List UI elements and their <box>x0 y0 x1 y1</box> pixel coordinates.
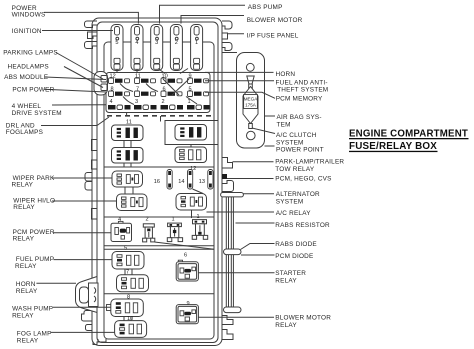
svg-text:ABS MODULE: ABS MODULE <box>4 74 48 81</box>
svg-text:FUEL AND ANTI-: FUEL AND ANTI- <box>276 79 328 86</box>
svg-text:HORN: HORN <box>16 281 36 288</box>
svg-text:ENGINE COMPARTMENT: ENGINE COMPARTMENT <box>349 128 468 139</box>
svg-text:9: 9 <box>189 74 192 80</box>
svg-text:THEFT SYSTEM: THEFT SYSTEM <box>277 87 328 94</box>
svg-text:DRIVE SYSTEM: DRIVE SYSTEM <box>12 110 62 117</box>
svg-text:PCM DIODE: PCM DIODE <box>275 253 313 260</box>
svg-text:WASH PUMP: WASH PUMP <box>12 305 53 312</box>
svg-text:RELAY: RELAY <box>12 181 34 188</box>
svg-text:1: 1 <box>172 217 175 223</box>
svg-text:RELAY: RELAY <box>12 312 34 319</box>
svg-text:1: 1 <box>188 99 191 105</box>
svg-text:AIR BAG SYS-: AIR BAG SYS- <box>277 114 322 121</box>
svg-text:3: 3 <box>155 40 158 46</box>
svg-text:6: 6 <box>163 86 166 92</box>
svg-text:HEADLAMPS: HEADLAMPS <box>8 63 49 70</box>
svg-text:16: 16 <box>154 179 160 185</box>
svg-text:4: 4 <box>110 99 113 105</box>
svg-text:A/C CLUTCH: A/C CLUTCH <box>276 132 317 139</box>
svg-text:7: 7 <box>136 86 139 92</box>
svg-text:PCM, HEGO, CVS: PCM, HEGO, CVS <box>275 176 331 183</box>
svg-text:1: 1 <box>195 40 198 46</box>
svg-text:RABS DIODE: RABS DIODE <box>275 241 317 248</box>
svg-text:STARTER: STARTER <box>275 270 306 277</box>
svg-text:MEGA: MEGA <box>244 97 258 102</box>
svg-text:TOW RELAY: TOW RELAY <box>275 166 315 173</box>
svg-text:6: 6 <box>184 252 187 258</box>
svg-text:10: 10 <box>162 74 168 80</box>
svg-text:5: 5 <box>124 245 127 251</box>
svg-text:PARK-LAMP/TRAILER: PARK-LAMP/TRAILER <box>275 159 344 166</box>
svg-text:IGNITION: IGNITION <box>12 28 42 35</box>
svg-text:ABS PUMP: ABS PUMP <box>248 4 283 11</box>
svg-text:PCM POWER: PCM POWER <box>12 87 54 94</box>
svg-text:2: 2 <box>162 99 165 105</box>
svg-text:ALTERNATOR: ALTERNATOR <box>276 191 320 198</box>
svg-text:RELAY: RELAY <box>13 204 35 211</box>
svg-text:5: 5 <box>189 86 192 92</box>
svg-text:RELAY: RELAY <box>275 322 297 329</box>
svg-text:4: 4 <box>135 40 138 46</box>
svg-text:13: 13 <box>199 179 205 185</box>
svg-text:14: 14 <box>178 179 184 185</box>
svg-text:PCM MEMORY: PCM MEMORY <box>276 95 323 102</box>
svg-text:TEM: TEM <box>277 121 291 128</box>
svg-text:RABS RESISTOR: RABS RESISTOR <box>275 222 330 229</box>
svg-text:FOG LAMP: FOG LAMP <box>17 330 52 337</box>
svg-text:HORN: HORN <box>276 71 296 78</box>
svg-text:5: 5 <box>115 40 118 46</box>
svg-text:RELAY: RELAY <box>13 236 35 243</box>
svg-text:FOGLAMPS: FOGLAMPS <box>6 129 43 136</box>
svg-text:8: 8 <box>111 86 114 92</box>
svg-text:SYSTEM: SYSTEM <box>276 139 304 146</box>
svg-text:RELAY: RELAY <box>16 288 38 295</box>
svg-text:WINDOWS: WINDOWS <box>12 12 46 19</box>
svg-text:175A: 175A <box>245 103 257 108</box>
svg-text:2: 2 <box>175 40 178 46</box>
svg-text:12: 12 <box>110 74 116 80</box>
svg-text:POWER POINT: POWER POINT <box>276 146 324 153</box>
svg-text:BLOWER MOTOR: BLOWER MOTOR <box>247 17 303 24</box>
svg-text:FUSE/RELAY BOX: FUSE/RELAY BOX <box>349 141 437 152</box>
svg-text:2: 2 <box>146 217 149 223</box>
svg-text:BLOWER MOTOR: BLOWER MOTOR <box>275 315 331 322</box>
svg-text:RELAY: RELAY <box>275 277 297 284</box>
svg-text:I/P FUSE PANEL: I/P FUSE PANEL <box>247 33 299 40</box>
svg-text:SYSTEM: SYSTEM <box>276 198 304 205</box>
svg-text:RELAY: RELAY <box>17 337 39 344</box>
svg-text:11: 11 <box>135 74 141 80</box>
svg-text:A/C RELAY: A/C RELAY <box>276 210 311 217</box>
svg-text:PARKING LAMPS: PARKING LAMPS <box>3 49 58 56</box>
svg-text:3: 3 <box>135 99 138 105</box>
svg-text:RELAY: RELAY <box>15 263 37 270</box>
